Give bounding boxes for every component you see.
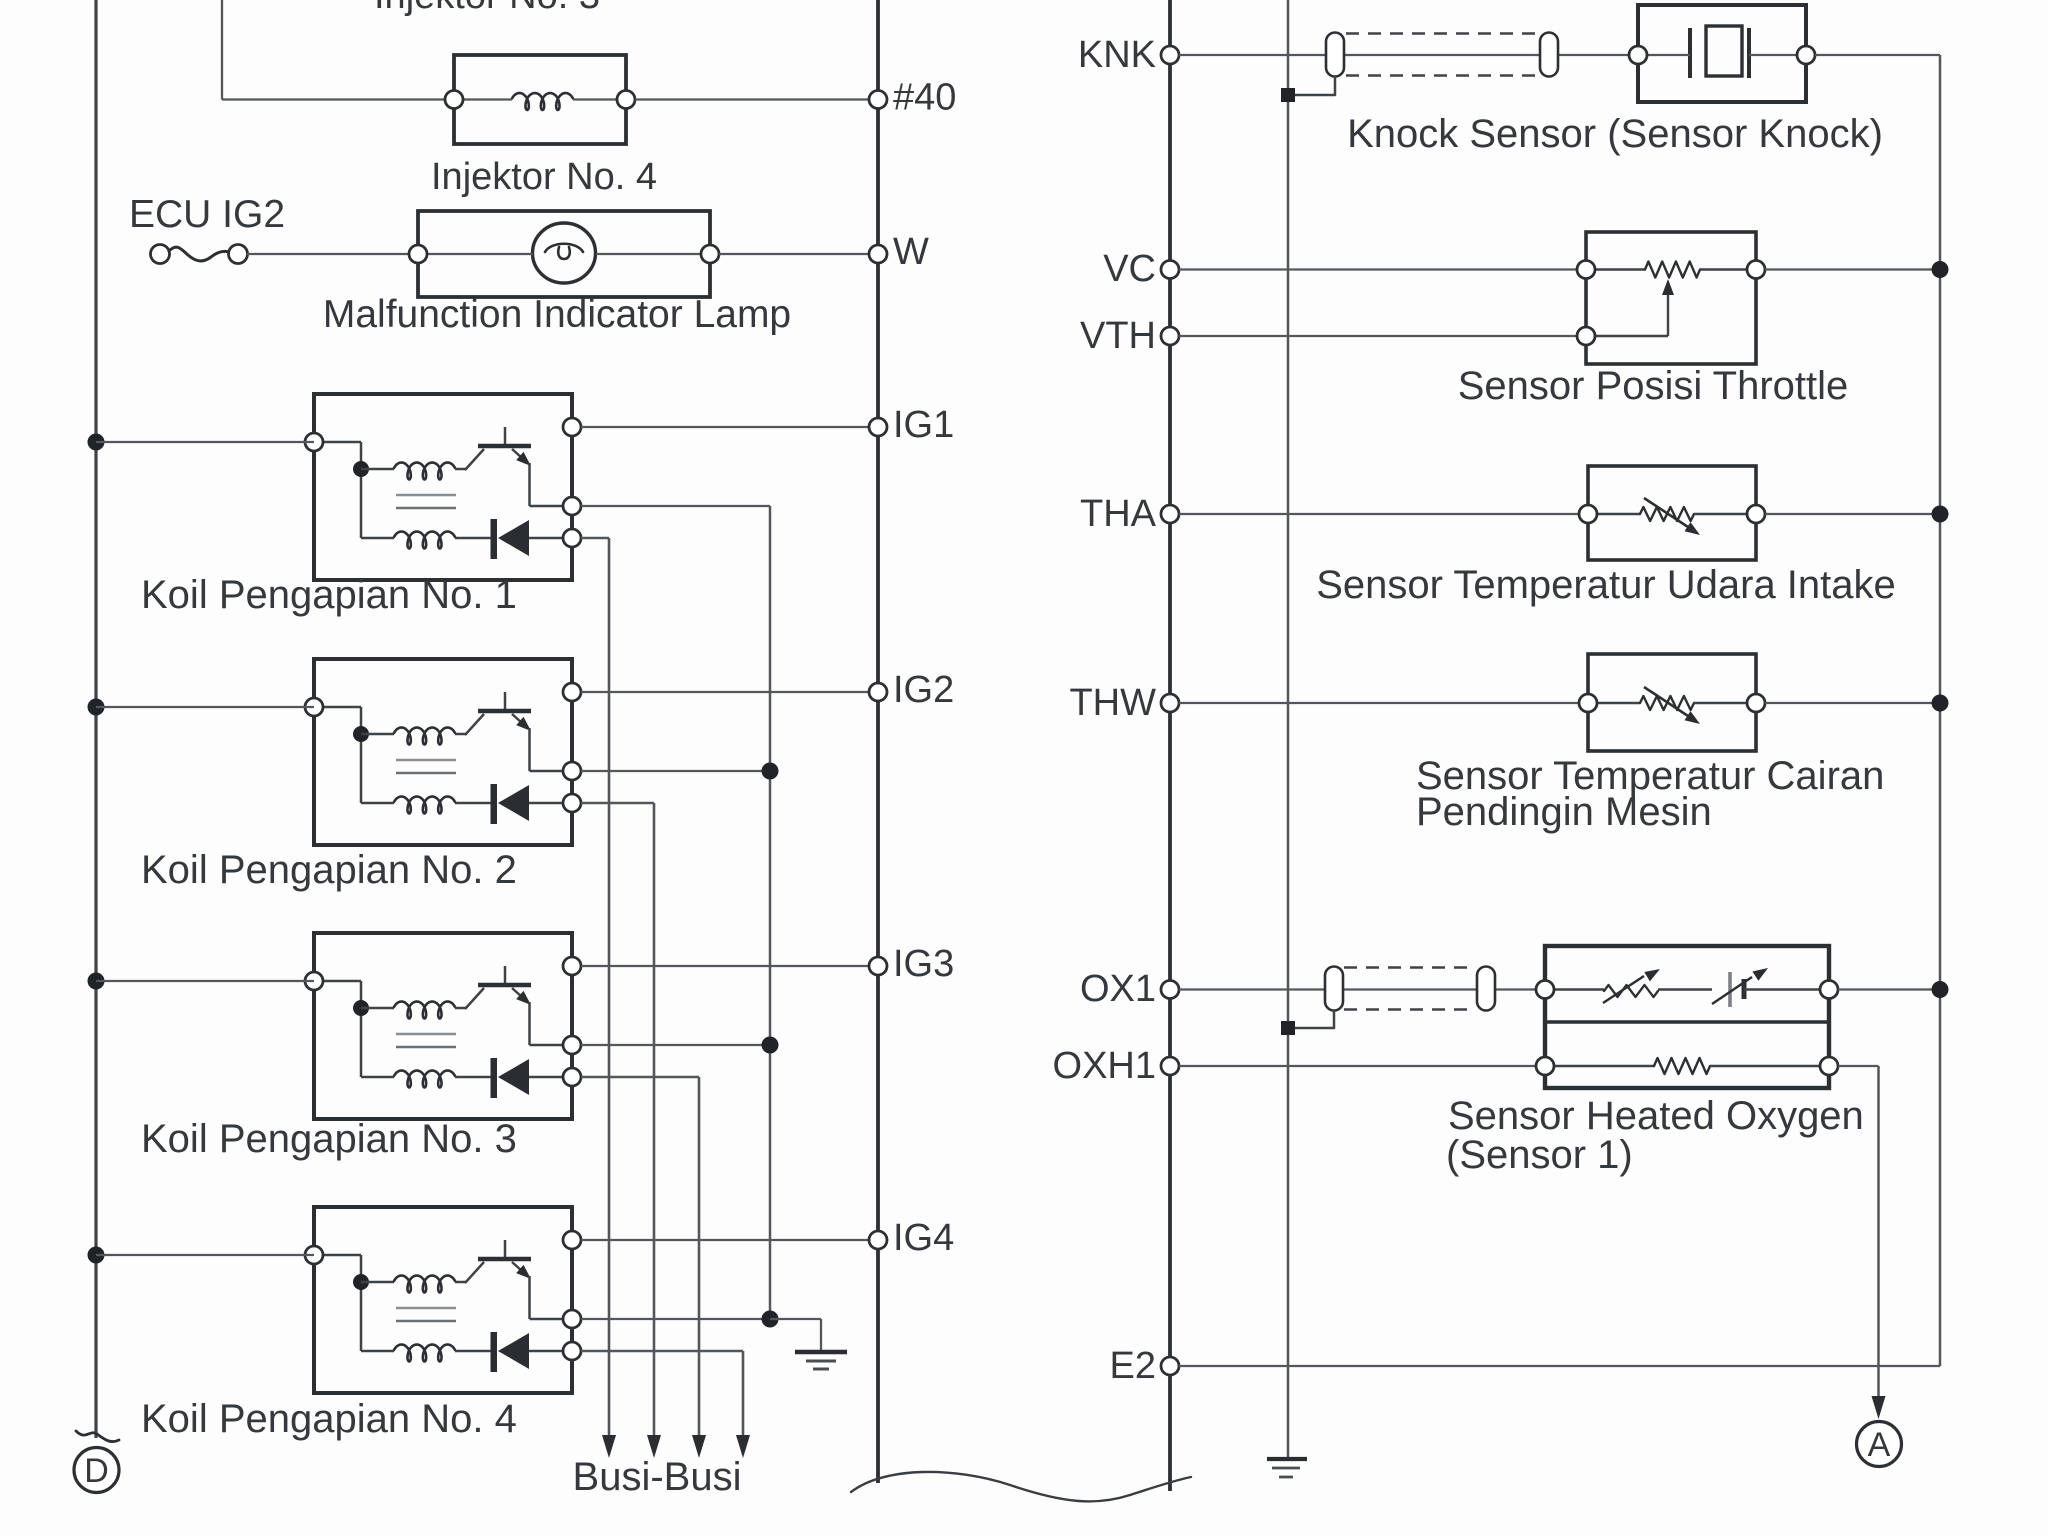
wire: coil2 emitter drop (528, 728, 531, 771)
wire: KNK to shielded cable (1179, 54, 1638, 56)
shield: OX1 cable right ferrule (1477, 967, 1495, 1011)
injector No. 4 box (454, 55, 626, 144)
wire: OX1 to shielded cable (1179, 988, 1545, 990)
terminal: knock sensor pin 2 (1797, 46, 1815, 64)
terminal: coil4 HT pin (563, 1342, 581, 1360)
terminal: THW sensor pin 2 (1747, 694, 1765, 712)
transistor Q4 base bar (478, 1257, 531, 1262)
transistor Q4 collector (465, 1262, 484, 1283)
transistor Q2 base bar (478, 709, 531, 714)
inductor: coil3 primary winding (394, 1002, 455, 1019)
terminal: ECU pin E2 (1161, 1357, 1179, 1375)
junction: bus dot for coil1 (88, 434, 105, 451)
junction: coil2 primary tap (353, 726, 369, 742)
transistor Q3 emitter (512, 988, 522, 997)
svg-text:Koil Pengapian No. 4: Koil Pengapian No. 4 (141, 1397, 517, 1441)
oxygen cell symbol (1728, 972, 1732, 1007)
core: coil1 iron core lines (396, 494, 456, 497)
shield: OX1 cable dashes (1344, 966, 1476, 968)
wire: coil4 HT out (581, 1350, 743, 1353)
wire: coil2 IG signal to ECU IG2 (581, 691, 878, 693)
core: coil4 iron core lines (396, 1307, 456, 1310)
wire: E2 ground return (1179, 1365, 1940, 1367)
terminal: coil1 emitter pin (563, 497, 581, 515)
inductor: coil2 secondary winding (394, 797, 455, 814)
arrow: to spark plug 2 (647, 1435, 661, 1458)
wire: throttle sensor to rail (1765, 268, 1940, 270)
shield: OX1 cable left ferrule (1325, 967, 1343, 1011)
junction: rail dot at VC row (1932, 261, 1949, 278)
terminal: O2 heater pin 1 (1536, 1057, 1554, 1075)
junction: bus dot for coil4 (88, 1247, 105, 1264)
terminal: throttle sensor VCC pin (1747, 261, 1765, 279)
inductor: coil4 primary winding (394, 1276, 455, 1293)
wire: THW to sensor (1179, 702, 1588, 704)
wire: coil3 primary lead (361, 1007, 394, 1010)
svg-text:#40: #40 (893, 77, 956, 119)
junction: rail dot at OX1 row (1932, 981, 1949, 998)
terminal: ECU pin OX1 (1161, 981, 1179, 999)
transistor Q3 base lead (504, 966, 507, 985)
terminal: injector left pin (445, 91, 463, 109)
shield: knock cable right ferrule (1540, 33, 1558, 77)
shield: knock cable dashes (1346, 32, 1538, 34)
wire: knock shield tap (1288, 77, 1335, 96)
svg-text:Malfunction Indicator Lamp: Malfunction Indicator Lamp (323, 293, 791, 336)
arrow: heater return to A (1872, 1396, 1886, 1419)
terminal: THW sensor pin 1 (1579, 694, 1597, 712)
transistor Q1 base lead (504, 427, 507, 446)
wire: common emitter line (769, 506, 772, 1319)
ignition coil unit Koil Pengapian No. 4 box (314, 1207, 572, 1393)
arrow: to spark plug 4 (736, 1435, 750, 1458)
wire: OXH1 to heater (1179, 1065, 1545, 1067)
intake air temperature sensor box (1588, 466, 1756, 560)
injector No. 4 solenoid coil (512, 93, 573, 110)
inductor: coil3 secondary winding (394, 1071, 455, 1088)
svg-text:Sensor Heated Oxygen: Sensor Heated Oxygen (1448, 1094, 1864, 1138)
transistor Q4 emitter (512, 1262, 522, 1271)
diode: coil1 HT diode (491, 519, 498, 559)
terminal: MIL left pin (409, 245, 427, 263)
svg-text:(Sensor 1): (Sensor 1) (1446, 1133, 1633, 1177)
arrow: to spark plug 3 (692, 1435, 706, 1458)
oxygen sensor divider (1545, 1020, 1829, 1024)
wire: O2 heater return (1838, 1065, 1879, 1067)
wire: +B feed to coil3 (96, 980, 314, 982)
inductor: coil1 secondary winding (394, 532, 455, 549)
wire: lamp left lead (427, 253, 533, 255)
wire: coil3 emitter drop (528, 1002, 531, 1045)
junction: coil3 primary tap (353, 1000, 369, 1016)
wire: coil1 HT out (581, 537, 609, 540)
wire: coil2 secondary to diode (455, 802, 491, 805)
terminal: injector right pin (617, 91, 635, 109)
wire: injector to ECU #40 (635, 98, 878, 100)
transistor Q2 emitter (512, 714, 522, 723)
wire: knock sensor to right rail (1815, 54, 1940, 56)
wire: injector right lead (573, 98, 626, 100)
terminal: coil1 HT pin (563, 529, 581, 547)
svg-text:Koil Pengapian No. 1: Koil Pengapian No. 1 (141, 573, 517, 617)
terminal: ECU pin OXH1 (1161, 1057, 1179, 1075)
terminal: O2 sensor signal pin (1536, 981, 1554, 999)
terminal: ECU pin THW (1161, 694, 1179, 712)
wire: coil4 +B lead from left terminal (314, 1254, 361, 1257)
wire: coil1 primary lead (361, 468, 394, 471)
terminal: THA sensor pin 1 (1579, 505, 1597, 523)
terminal: MIL right pin (701, 245, 719, 263)
svg-text:Koil Pengapian No. 3: Koil Pengapian No. 3 (141, 1117, 517, 1161)
wire: coil3 emitter to middle terminal (530, 1044, 573, 1047)
junction: bus dot for coil3 (88, 973, 105, 990)
svg-text:KNK: KNK (1078, 34, 1156, 76)
transistor Q3 base bar (478, 983, 531, 988)
diode: coil4 HT diode (491, 1332, 498, 1372)
svg-text:Knock Sensor (Sensor Knock): Knock Sensor (Sensor Knock) (1347, 112, 1883, 156)
terminal: ECU pin W (869, 245, 887, 263)
wire: injector left lead (463, 98, 512, 100)
terminal: ECU pin #40 (869, 91, 887, 109)
wire: coil4 IG signal to ECU IG4 (581, 1239, 878, 1241)
svg-text:ECU IG2: ECU IG2 (129, 193, 285, 236)
heated oxygen sensor box (1545, 946, 1829, 1088)
wire: coil2 primary lead (361, 733, 394, 736)
terminal: knock sensor pin 1 (1629, 46, 1647, 64)
wire: knock box right lead (1749, 54, 1797, 56)
terminal: ECU IG2 left stub (151, 245, 170, 264)
thermistor symbol THA (1597, 513, 1640, 515)
svg-text:IG4: IG4 (893, 1217, 954, 1259)
connector A circle (1857, 1422, 1902, 1467)
ground: igniter ground symbol (795, 1350, 847, 1355)
terminal: coil2 HT pin (563, 794, 581, 812)
terminal: ECU pin IG2 (869, 683, 887, 701)
svg-text:Sensor Temperatur Udara Intake: Sensor Temperatur Udara Intake (1316, 563, 1896, 607)
svg-text:VC: VC (1103, 248, 1156, 290)
wire: coil1 +B lead from left terminal (314, 441, 361, 444)
wire: coil3 diode to HT terminal (529, 1076, 572, 1079)
wire: coil1 primary to collector (455, 468, 466, 471)
junction: emitter dot coil2 (762, 763, 779, 780)
terminal: throttle sensor VC pin (1577, 261, 1595, 279)
terminal: coil4 +B pin (305, 1246, 323, 1264)
terminal: coil1 IG pin (563, 418, 581, 436)
terminal: O2 heater pin 2 (1820, 1057, 1838, 1075)
wire: coil1 IG signal to ECU IG1 (581, 426, 878, 428)
wire: coil2 secondary left (361, 802, 394, 805)
wire: coil1 emitter to common (581, 505, 770, 507)
wire: knock box left lead (1647, 54, 1690, 56)
wire: coil4 primary lead (361, 1281, 394, 1284)
wire: O2 signal to rail (1838, 988, 1940, 990)
diode: coil2 HT diode (491, 784, 498, 824)
terminal: throttle sensor VTH pin (1577, 327, 1595, 345)
heater resistor (1554, 1065, 1654, 1067)
wire: coil4 emitter to common (581, 1318, 770, 1320)
wire: coil3 HT out (581, 1076, 699, 1079)
terminal: coil3 HT pin (563, 1068, 581, 1086)
terminal: ECU pin IG1 (869, 418, 887, 436)
wire: coil3 secondary left (361, 1076, 394, 1079)
wire: coil2 diode to HT terminal (529, 802, 572, 805)
thermistor symbol THW (1597, 702, 1640, 704)
wire: OX1 shield tap (1288, 1011, 1334, 1029)
terminal: ECU pin VTH (1161, 327, 1179, 345)
bus: ECU right boundary line (1168, 0, 1172, 1491)
terminal: coil1 +B pin (305, 433, 323, 451)
wire: coil2 emitter to middle terminal (530, 770, 573, 773)
svg-text:A: A (1868, 1426, 1891, 1464)
knock sensor piezo element (1688, 28, 1692, 78)
break: squiggle on battery line (76, 1431, 119, 1442)
wire: coil4 secondary left (361, 1350, 394, 1353)
terminal: ECU IG2 right stub (229, 245, 248, 264)
ignition coil unit Koil Pengapian No. 3 box (314, 933, 572, 1119)
wire: coil3 internal vertical (360, 981, 363, 1077)
malfunction indicator lamp box (418, 211, 710, 297)
connector D circle (74, 1448, 119, 1493)
wire: coil4 emitter to middle terminal (530, 1318, 573, 1321)
wire: coil4 diode to HT terminal (529, 1350, 572, 1353)
wire: feed from Injektor No. 3 circuit above (221, 0, 223, 100)
junction: coil1 primary tap (353, 461, 369, 477)
svg-text:Busi-Busi: Busi-Busi (573, 1455, 742, 1499)
junction: rail dot at THA row (1932, 506, 1949, 523)
lamp filament (545, 244, 583, 259)
terminal: ECU pin IG4 (869, 1231, 887, 1249)
transistor Q2 base lead (504, 692, 507, 711)
svg-text:VTH: VTH (1080, 315, 1156, 357)
potentiometer wiper arrow (1667, 294, 1669, 336)
junction: shield drain dot (OX1) (1281, 1021, 1295, 1035)
wire: VC to sensor (1179, 268, 1586, 270)
wire: shield drain line (1287, 0, 1290, 1459)
svg-text:Injektor No. 3: Injektor No. 3 (374, 0, 600, 17)
wire: coil3 emitter to common (581, 1044, 770, 1046)
svg-text:THW: THW (1069, 682, 1156, 724)
terminal: coil3 IG pin (563, 957, 581, 975)
svg-text:Koil Pengapian No. 2: Koil Pengapian No. 2 (141, 848, 517, 892)
wire: +B feed to coil1 (96, 441, 314, 443)
inductor: coil4 secondary winding (394, 1345, 455, 1362)
coolant temperature sensor box (1588, 654, 1756, 751)
junction: shield drain dot (knock) (1281, 88, 1295, 102)
wire: coil2 +B lead from left terminal (314, 706, 361, 709)
junction: coil4 primary tap (353, 1274, 369, 1290)
wire: coil3 primary to collector (455, 1007, 466, 1010)
terminal: THA sensor pin 2 (1747, 505, 1765, 523)
transistor Q1 base bar (478, 444, 531, 449)
terminal: coil3 +B pin (305, 972, 323, 990)
core: coil2 iron core lines (396, 759, 456, 762)
lamp symbol body (533, 223, 596, 283)
transistor Q4 base lead (504, 1240, 507, 1259)
wire: THA to sensor (1179, 513, 1588, 515)
junction: rail dot at THW row (1932, 695, 1949, 712)
bus: ECU left boundary line (876, 0, 880, 1483)
break: ECU wavy bottom (851, 1472, 1191, 1501)
wire: MIL to ECU W (719, 253, 878, 255)
wire: coil4 internal vertical (360, 1255, 363, 1351)
terminal: ECU pin VC (1161, 261, 1179, 279)
knock sensor box (1638, 5, 1806, 102)
inductor: coil2 primary winding (394, 728, 455, 745)
svg-text:W: W (893, 231, 929, 273)
wire: coil2 HT out (581, 802, 654, 805)
terminal: coil2 +B pin (305, 698, 323, 716)
svg-text:Pendingin Mesin: Pendingin Mesin (1416, 790, 1712, 834)
wire: spark plug lead 3 (698, 1077, 701, 1436)
terminal: coil2 IG pin (563, 683, 581, 701)
core: coil3 iron core lines (396, 1033, 456, 1036)
transistor Q3 collector (465, 988, 484, 1009)
svg-text:Injektor No. 4: Injektor No. 4 (431, 156, 657, 198)
wire: spark plug lead 4 (742, 1351, 745, 1436)
wire: coil2 primary to collector (455, 733, 466, 736)
svg-text:IG2: IG2 (893, 669, 954, 711)
wire: coil1 secondary to diode (455, 537, 491, 540)
transistor Q2 collector (465, 714, 484, 735)
svg-text:IG1: IG1 (893, 404, 954, 446)
terminal: coil4 IG pin (563, 1231, 581, 1249)
potentiometer track (1595, 268, 1645, 270)
wire: coil2 internal vertical (360, 707, 363, 803)
wire: coil4 emitter drop (528, 1276, 531, 1319)
wire: coil1 secondary left (361, 537, 394, 540)
wire: spark plug lead 2 (653, 803, 656, 1436)
svg-text:D: D (84, 1452, 109, 1490)
ignition coil unit Koil Pengapian No. 1 box (314, 394, 572, 580)
terminal: ECU pin IG3 (869, 957, 887, 975)
wire: THA sensor to rail (1765, 513, 1940, 515)
wire: +B feed to coil2 (96, 706, 314, 708)
wire: lamp right lead (596, 253, 710, 255)
wire: coil4 primary to collector (455, 1281, 466, 1284)
wire: coil1 emitter to middle terminal (530, 505, 573, 508)
wire: coil1 emitter drop (528, 463, 531, 506)
wire: coil3 +B lead from left terminal (314, 980, 361, 983)
terminal: coil3 emitter pin (563, 1036, 581, 1054)
terminal: ECU pin THA (1161, 505, 1179, 523)
svg-text:THA: THA (1080, 493, 1157, 535)
wire: ECU IG2 squiggle (169, 247, 229, 261)
transistor Q1 collector (465, 449, 484, 470)
terminal: O2 sensor signal return pin (1820, 981, 1838, 999)
ground: shield drain ground (1267, 1457, 1307, 1461)
transistor Q1 emitter (512, 449, 522, 458)
wire: THW sensor to rail (1765, 702, 1940, 704)
shield: knock cable left ferrule (1326, 33, 1344, 77)
wire: coil4 secondary to diode (455, 1350, 491, 1353)
svg-text:Sensor Posisi Throttle: Sensor Posisi Throttle (1458, 364, 1849, 408)
wire: coil2 emitter to common (581, 770, 770, 772)
wire: coil3 IG signal to ECU IG3 (581, 965, 878, 967)
junction: emitter dot coil3 (762, 1037, 779, 1054)
throttle position sensor box (1586, 232, 1756, 364)
wire: left vertical bus to battery (D) (94, 0, 97, 1438)
wire: emitter line to ground (770, 1318, 821, 1320)
wire: coil3 secondary to diode (455, 1076, 491, 1079)
svg-text:OXH1: OXH1 (1053, 1045, 1156, 1087)
arrow: to spark plug 1 (602, 1435, 616, 1458)
junction: emitter dot coil4 (762, 1311, 779, 1328)
wire: spark plug lead 1 (608, 538, 611, 1436)
ignition coil unit Koil Pengapian No. 2 box (314, 659, 572, 845)
junction: bus dot for coil2 (88, 699, 105, 716)
wire: coil1 diode to HT terminal (529, 537, 572, 540)
terminal: coil2 emitter pin (563, 762, 581, 780)
terminal: ECU pin KNK (1161, 46, 1179, 64)
svg-text:E2: E2 (1110, 1345, 1156, 1387)
wire: right common rail (1939, 270, 1942, 1367)
oxygen sensing element symbol (1554, 988, 1604, 990)
svg-text:IG3: IG3 (893, 943, 954, 985)
wire: VTH to sensor (1179, 335, 1586, 337)
wire: VTH inside sensor (1595, 335, 1668, 337)
inductor: coil1 primary winding (394, 463, 455, 480)
wire: ECU IG2 to MIL (247, 253, 418, 255)
wire: coil1 internal vertical (360, 442, 363, 538)
wire: feed to Injektor No. 4 (222, 98, 454, 100)
terminal: coil4 emitter pin (563, 1310, 581, 1328)
wire: +B feed to coil4 (96, 1254, 314, 1256)
diode: coil3 HT diode (491, 1058, 498, 1098)
svg-text:OX1: OX1 (1080, 968, 1156, 1010)
